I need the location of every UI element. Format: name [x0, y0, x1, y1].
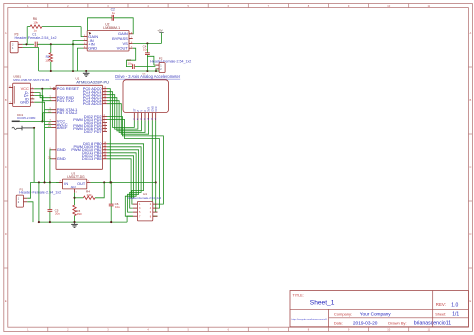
mcu left pins: [48, 86, 79, 161]
wire C3 to P2 pin1: [135, 66, 156, 68]
wire USB GND down: [34, 102, 44, 182]
wire DIG8 to H1 pin1: [107, 144, 144, 204]
wire ADC2 to acc pin2: [107, 95, 138, 129]
wire ADC3 to acc pin3: [107, 98, 141, 131]
svg-text:+5V: +5V: [157, 29, 162, 33]
svg-text:B: B: [470, 98, 472, 102]
junction VCC drop: [41, 88, 43, 90]
svg-text:2019-03-20: 2019-03-20: [353, 321, 378, 327]
junction gnd P1: [38, 221, 40, 223]
wire DC1 sleeve to input rail: [33, 128, 35, 182]
junction rail 2: [43, 181, 45, 183]
wire MCU GND2 left: [50, 158, 52, 160]
connector P1: [16, 188, 61, 208]
svg-text:Date:: Date:: [334, 321, 343, 325]
svg-text:10u: 10u: [128, 61, 133, 65]
wire P3 pin2 to ground rail: [23, 48, 39, 71]
wire U2 -IN to ground: [73, 40, 84, 71]
svg-text:390: 390: [77, 212, 82, 216]
svg-text:TITLE:: TITLE:: [293, 294, 304, 298]
wire C2 left to U2 top: [88, 18, 113, 31]
svg-text:Drawn By:: Drawn By:: [388, 320, 406, 325]
wire acc VCC to +5V rail and H1 pin6: [156, 120, 158, 212]
svg-text:10u: 10u: [115, 205, 120, 209]
svg-text:ADJ: ADJ: [71, 185, 77, 189]
wire DIG9 to H1 pin3: [107, 147, 141, 208]
mcu right pins: [71, 86, 107, 161]
junction ADJ: [73, 197, 75, 199]
svg-text:B: B: [5, 98, 7, 102]
wire C1 to U2 +IN: [37, 43, 83, 45]
wire VCC drop to VCC row: [41, 89, 43, 122]
wire VS to +5V: [133, 42, 162, 44]
resistor R4: [75, 182, 105, 199]
svg-text:DC005-2.0MM: DC005-2.0MM: [17, 116, 36, 120]
svg-text:C: C: [469, 165, 471, 169]
wire U2 GND to ground: [77, 48, 83, 71]
wire acc GND to H1 pin8: [152, 120, 157, 216]
svg-text:E: E: [470, 299, 472, 303]
DC jack DC1: [12, 113, 36, 131]
svg-text:AREF: AREF: [57, 125, 68, 130]
svg-text:ATMEGA328P-PU: ATMEGA328P-PU: [76, 80, 109, 85]
wire IN stub: [56, 181, 59, 183]
wire AREF left: [45, 127, 52, 129]
ground rail bottom: [39, 221, 127, 223]
svg-text:GND: GND: [88, 46, 97, 51]
svg-text:https://easyeda.com/brianascen: https://easyeda.com/brianascencio11: [292, 318, 329, 321]
wire ADC0 down to +5V rail: [107, 89, 110, 183]
output rail +5V: [91, 181, 156, 183]
svg-text:D: D: [5, 232, 7, 236]
wire AVCC left: [45, 124, 52, 126]
wire C4 jog to P2 pin1: [147, 56, 154, 65]
wire DIG2 to H1 pin2: [107, 117, 163, 205]
wire USB D- to RXD: [34, 93, 51, 98]
wire XTAL2 drop: [42, 113, 44, 122]
svg-text:GND: GND: [57, 156, 66, 161]
wire USB VCC to MCU RESET row: [34, 88, 51, 90]
connector H1: [128, 192, 161, 221]
svg-text:ST: ST: [132, 108, 136, 112]
wire ADC4 to acc pin4: [107, 101, 145, 133]
wire P2 pin1 jog: [154, 64, 156, 66]
svg-text:brianascencio11: brianascencio11: [414, 321, 452, 327]
svg-text:C: C: [5, 165, 7, 169]
svg-text:1/1: 1/1: [452, 312, 459, 318]
capacitor C6: [109, 182, 120, 222]
ground symbol main: [74, 222, 76, 224]
svg-text:GND: GND: [20, 100, 29, 105]
junction rail 1: [38, 181, 40, 183]
capacitor C3: [127, 58, 134, 69]
junction VCC row: [41, 120, 43, 122]
reset pin bubble: [53, 88, 55, 90]
wire ADC5 to acc pin5: [107, 104, 149, 135]
resistor R2: [45, 44, 52, 71]
svg-text:Header-Female-2.54_2x4: Header-Female-2.54_2x4: [128, 196, 161, 200]
wire ground rail to H1 pin7: [127, 216, 133, 222]
wire DIG12 stub: [107, 156, 134, 198]
junction ADC0 rail: [109, 181, 111, 183]
mcu U1 ATMEGA328P-PU: [56, 76, 109, 169]
svg-text:Header-Female-2.54_1x2: Header-Female-2.54_1x2: [19, 191, 61, 195]
wire DIG11 to H1 pin7: [107, 153, 136, 216]
svg-text:Y: Y: [140, 110, 144, 112]
junction node R6 left: [25, 43, 27, 45]
junction C6 top: [110, 181, 112, 183]
svg-text:3V3: 3V3: [147, 107, 151, 112]
svg-text:DIG13 PB5: DIG13 PB5: [82, 156, 102, 161]
wire DIG10 to H1 pin5: [107, 150, 139, 212]
capacitor C2: [111, 7, 116, 20]
junction at -IN drop: [72, 43, 74, 45]
accelerometer module U4: [123, 80, 169, 121]
svg-text:VOUT: VOUT: [117, 46, 129, 51]
ground symbol audio: [85, 71, 87, 73]
svg-text:Sheet:: Sheet:: [435, 312, 446, 316]
wire R6 left leg: [26, 27, 28, 45]
svg-text:PC6 RESET: PC6 RESET: [57, 86, 80, 91]
wire ADC1 to acc pin1: [107, 92, 134, 128]
junction gnd R3: [73, 221, 75, 223]
wire ADJ node: [74, 193, 76, 205]
wire DIG3 to H1 pin4: [107, 120, 160, 209]
svg-text:LM317T-DG: LM317T-DG: [67, 175, 85, 179]
svg-text:Sheet_1: Sheet_1: [310, 299, 335, 306]
junction C4 bottom: [146, 70, 148, 72]
junction DC1 sleeve: [33, 127, 35, 129]
wire DIG13 stub: [107, 159, 131, 198]
svg-text:PB7 XTAL2: PB7 XTAL2: [57, 110, 78, 115]
svg-text:1u: 1u: [112, 11, 116, 15]
junction C5 top: [49, 181, 51, 183]
svg-text:MINI-USB-5P-SMT-HK-65: MINI-USB-5P-SMT-HK-65: [13, 78, 49, 82]
wire vertical link rails: [38, 182, 40, 222]
svg-text:PD1 TXD: PD1 TXD: [57, 98, 74, 103]
junction acc VCC rail: [155, 181, 157, 183]
junction C4 top: [146, 42, 148, 44]
junction gnd C5: [49, 221, 51, 223]
svg-text:C1: C1: [32, 32, 36, 36]
connector USB1: [9, 75, 50, 107]
wire C2 right to GAIN pin8: [114, 18, 134, 34]
svg-text:GND: GND: [57, 147, 66, 152]
junction gnd symbol: [85, 70, 87, 72]
svg-text:20u: 20u: [55, 212, 60, 216]
capacitor C5: [48, 182, 61, 222]
svg-text:240: 240: [87, 193, 92, 197]
capacitor C1: [32, 28, 37, 47]
+5V power flag: [157, 29, 164, 44]
op-amp U2 LM386: [84, 23, 134, 51]
wire U2 VOUT to C3: [126, 48, 135, 66]
svg-text:E: E: [5, 299, 7, 303]
junction gnd C6: [110, 221, 112, 223]
svg-text:D: D: [469, 232, 471, 236]
wire XTAL1 stub left: [45, 109, 52, 111]
svg-text:A: A: [470, 31, 472, 35]
wire P1 pin1 to input rail: [27, 182, 30, 198]
svg-text:LM386M-1: LM386M-1: [103, 26, 120, 30]
resistor R6: [27, 17, 81, 28]
capacitor C4: [143, 43, 150, 71]
svg-text:REV:: REV:: [436, 302, 446, 307]
svg-text:DIG7 PD7: DIG7 PD7: [84, 129, 102, 134]
junction R4 right: [103, 181, 105, 183]
wire DC1 center to MCU VCC: [20, 120, 52, 122]
wire MCU GND1 left: [50, 150, 52, 183]
wire USB D+ to TXD: [34, 96, 51, 101]
svg-text:OUT: OUT: [77, 182, 86, 186]
svg-text:A: A: [5, 31, 7, 35]
svg-text:Drive - 3 Axis Analog Accelero: Drive - 3 Axis Analog Accelerometer: [115, 74, 181, 79]
input rail: [31, 181, 63, 183]
svg-text:10k: 10k: [33, 20, 38, 24]
svg-text:Your Company: Your Company: [360, 312, 391, 317]
regulator U3 LM317: [59, 172, 91, 194]
ground rail audio section: [39, 70, 165, 72]
svg-text:X: X: [143, 110, 147, 112]
connector P2: [150, 57, 191, 73]
svg-text:VCC: VCC: [154, 106, 158, 112]
svg-text:GND: GND: [150, 106, 154, 112]
connector P3: [10, 32, 56, 52]
junction R2 top: [50, 43, 52, 45]
svg-text:Company:: Company:: [334, 311, 352, 316]
wire R6 right leg to GAIN: [81, 27, 83, 37]
junction -IN ground: [72, 70, 74, 72]
wire P1 pin2 to ground rail: [27, 202, 33, 222]
wire P2 pin2 to ground rail: [154, 69, 157, 71]
title block: [290, 291, 468, 327]
wire XTAL2 stub left: [43, 112, 52, 114]
junction P2 pin2: [155, 70, 157, 72]
junction R2 bottom: [50, 70, 52, 72]
svg-text:1.0: 1.0: [451, 302, 458, 308]
wire P3 pin1 to C1: [23, 43, 34, 45]
svg-text:IN: IN: [64, 182, 68, 186]
svg-text:PC5 ADC5: PC5 ADC5: [83, 101, 102, 106]
svg-text:Header-Female-2.54_1x2: Header-Female-2.54_1x2: [150, 59, 191, 63]
resistor R3: [73, 205, 82, 222]
